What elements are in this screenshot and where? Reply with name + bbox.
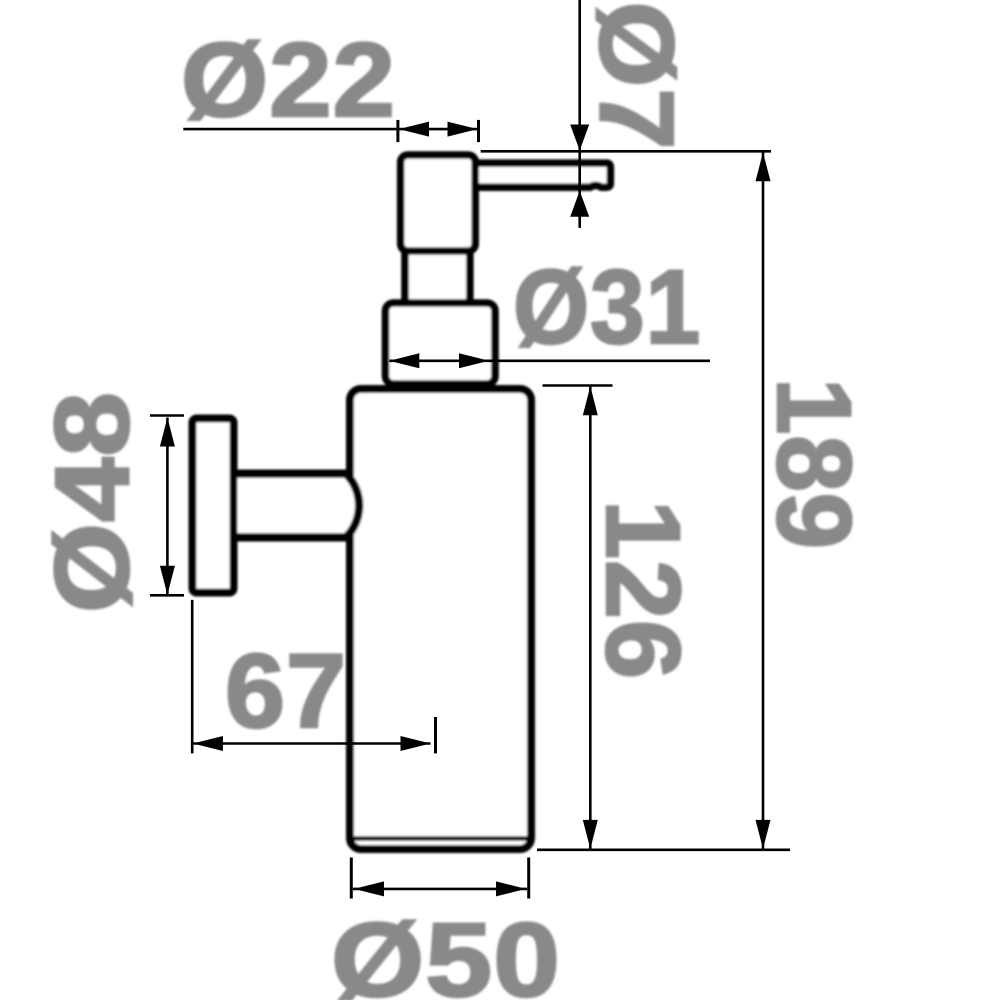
mounting arm [230, 474, 359, 538]
dim 189 down arrow [756, 820, 771, 849]
dim Ø22 right arrow [448, 122, 478, 137]
svg-text:Ø50: Ø50 [331, 902, 561, 1000]
dim Ø50 left arrow [354, 881, 384, 896]
dim Ø7 vertical line [578, 0, 581, 228]
dim Ø48 bottom extension line [150, 594, 184, 597]
svg-text:Ø48: Ø48 [34, 391, 151, 613]
svg-text:Ø22: Ø22 [181, 22, 396, 139]
dim 67 right arrow [401, 736, 431, 751]
pump neck [405, 248, 470, 303]
dim 126 up arrow [583, 386, 598, 415]
dim Ø22 right tick [477, 120, 480, 142]
dim Ø50 line [353, 888, 527, 891]
dim Ø7 down arrow [570, 125, 589, 151]
dim 67 line [193, 742, 431, 745]
dim Ø48 top extension line [150, 414, 184, 417]
dim Ø22 left arrow [399, 122, 429, 137]
dim Ø7 top extension line [481, 150, 771, 153]
dim Ø7 up arrow [570, 191, 589, 217]
dim Ø22 line [183, 128, 478, 131]
body base inner line [353, 836, 528, 841]
dim 189 vertical line [762, 152, 765, 849]
dim Ø50 right arrow [496, 881, 526, 896]
dim Ø48 down arrow [160, 566, 175, 595]
svg-text:Ø7: Ø7 [578, 2, 695, 151]
svg-text:189: 189 [755, 378, 872, 550]
wall plate [193, 419, 234, 593]
dim 67 right tick [434, 717, 437, 753]
dim 126/189 bottom extension line [537, 848, 790, 851]
bottle body [350, 389, 531, 849]
collar [386, 303, 496, 384]
dim 126 vertical line [589, 386, 592, 849]
dim 189 up arrow [756, 152, 771, 181]
dim Ø48 up arrow [160, 418, 175, 447]
dim Ø31 left arrow [389, 353, 419, 368]
dim Ø50 right tick [527, 858, 530, 899]
dim Ø50 left tick [350, 858, 353, 899]
pump spout [470, 163, 610, 187]
dim 126 down arrow [583, 820, 598, 849]
dim 126 top extension line [543, 384, 613, 387]
dim Ø48 vertical line [166, 418, 169, 595]
dim Ø22 left tick [396, 120, 399, 142]
svg-text:67: 67 [225, 633, 347, 750]
dim 67 left extension line [191, 600, 194, 754]
dim 67 left arrow [193, 736, 223, 751]
svg-text:Ø31: Ø31 [513, 249, 701, 366]
svg-text:126: 126 [584, 500, 701, 680]
dim Ø31 line [389, 359, 710, 362]
dim Ø31 right arrow [459, 353, 489, 368]
pump head [401, 155, 476, 251]
